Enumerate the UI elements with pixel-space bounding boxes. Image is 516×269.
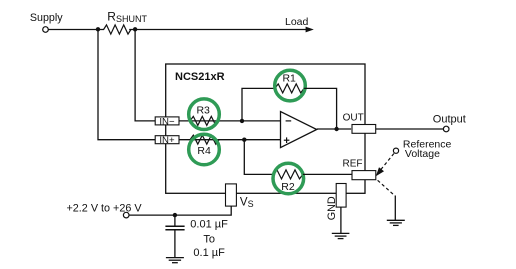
ground (GND pin) [332, 233, 350, 238]
svg-text:0.1 µF: 0.1 µF [193, 247, 225, 259]
pin box GND [336, 184, 346, 208]
supply terminal +2.2V [123, 212, 129, 218]
wire R2 to REF pin [303, 173, 353, 175]
ground (reference) [387, 220, 405, 225]
load arrowhead [306, 27, 314, 33]
wiper arrowhead at REF [376, 167, 384, 176]
pin box IN+ [155, 136, 179, 144]
svg-text:GND: GND [326, 196, 338, 220]
pin box IN- [155, 117, 179, 125]
reference terminal [393, 148, 398, 153]
wire supply rail left [48, 29, 104, 31]
wire reference ground leg [394, 196, 396, 221]
resistor R2 [274, 170, 303, 179]
node shunt right [133, 27, 137, 31]
wire shunt left node to IN+ [98, 30, 155, 140]
svg-text:IN−: IN− [159, 116, 175, 127]
wire OUT to output terminal [376, 128, 444, 130]
wire feedback riser left [242, 88, 275, 121]
output terminal [443, 126, 449, 132]
node minus input junction [240, 119, 244, 123]
op-amp plus sign [284, 139, 290, 141]
resistor RSHUNT [104, 25, 131, 34]
pin box OUT [352, 125, 376, 134]
op-amp U1 [281, 112, 317, 148]
resistor R4 (zigzag on plus line) [190, 135, 219, 144]
svg-text:Supply: Supply [30, 12, 63, 24]
svg-text:Voltage: Voltage [405, 148, 440, 160]
op-amp minus sign [286, 120, 292, 122]
wire op-amp output to OUT pin [317, 128, 351, 130]
wire supply rail right to load [129, 29, 306, 31]
svg-text:R2: R2 [281, 181, 295, 193]
svg-text:IN+: IN+ [159, 135, 175, 146]
dashed wire wiper to reference terminal [381, 153, 395, 170]
ground (capacitor) [166, 258, 184, 263]
node plus input junction [242, 138, 246, 142]
svg-text:To: To [203, 233, 215, 245]
svg-text:VS: VS [240, 196, 254, 209]
dashed wire wiper to ground leg [378, 180, 395, 196]
IC body box NCS21xR [166, 64, 365, 193]
node output feedback junction [334, 127, 338, 131]
wire cap bottom lead [174, 230, 176, 258]
capacitor C1 [165, 226, 184, 230]
svg-text:Load: Load [285, 16, 309, 28]
resistor R3 (zigzag on minus line) [190, 116, 219, 125]
pin box VS [226, 184, 237, 206]
wire VS supply rail [129, 206, 231, 215]
svg-text:R3: R3 [196, 104, 210, 116]
svg-text:R4: R4 [197, 145, 211, 157]
wire cap top lead [174, 215, 176, 226]
pin box REF [352, 171, 376, 180]
wire GND lead [340, 207, 342, 233]
circle R2 [273, 163, 304, 194]
node cap junction [173, 213, 177, 217]
circle R3 [189, 99, 220, 130]
circle R1 [275, 70, 306, 101]
svg-text:OUT: OUT [343, 113, 364, 124]
wire shunt right node to IN- [135, 30, 155, 121]
resistor R1 [275, 84, 304, 93]
node shunt left [96, 27, 100, 31]
svg-text:+2.2 V to +26 V: +2.2 V to +26 V [67, 202, 143, 214]
supply terminal [43, 27, 49, 33]
wire R2 branch riser [244, 140, 273, 175]
svg-text:0.01 µF: 0.01 µF [190, 218, 228, 230]
svg-text:REF: REF [343, 159, 363, 170]
circle R4 [189, 134, 220, 165]
svg-text:Output: Output [433, 113, 466, 125]
wire IN- to op-amp minus input [179, 120, 281, 122]
svg-text:NCS21xR: NCS21xR [175, 71, 225, 83]
wire IN+ to op-amp plus input [179, 139, 281, 141]
svg-text:R1: R1 [282, 73, 296, 85]
wire feedback to output node [304, 88, 337, 129]
